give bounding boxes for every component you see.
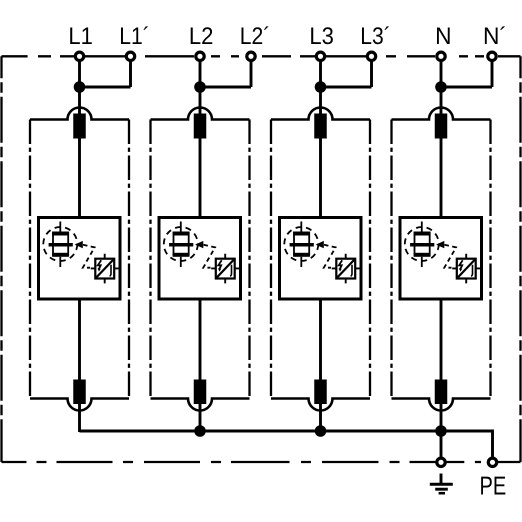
svg-text:N: N bbox=[435, 23, 451, 50]
wire bus to PE terminal bbox=[441, 431, 493, 457]
bus junction dot L2 bbox=[194, 425, 206, 437]
svg-text:L2: L2 bbox=[189, 23, 214, 50]
PE terminal circle bbox=[488, 458, 496, 466]
outer device boundary (dash-dot), top edge segments bbox=[2, 55, 521, 57]
column L2 bbox=[151, 52, 256, 432]
outer boundary right edge bbox=[519, 56, 521, 462]
column N bbox=[392, 52, 497, 432]
earth symbol bbox=[440, 474, 443, 485]
column L3 bbox=[271, 52, 376, 432]
outer boundary left edge bbox=[0, 56, 2, 462]
svg-text:L1´: L1´ bbox=[119, 23, 150, 50]
wire bus to ground terminal bbox=[440, 431, 443, 457]
bus junction dot N bbox=[435, 425, 447, 437]
column L1 bbox=[30, 52, 135, 432]
ground terminal circle bbox=[437, 458, 445, 466]
PE bus bbox=[80, 430, 442, 433]
outer boundary bottom edge bbox=[2, 461, 521, 463]
svg-text:L3: L3 bbox=[309, 23, 334, 50]
svg-text:L1: L1 bbox=[68, 23, 93, 50]
svg-text:L3´: L3´ bbox=[360, 23, 391, 50]
bus junction dot L3 bbox=[315, 425, 327, 437]
svg-text:PE: PE bbox=[480, 470, 507, 500]
svg-text:N´: N´ bbox=[483, 23, 507, 50]
svg-text:L2´: L2´ bbox=[240, 23, 271, 50]
